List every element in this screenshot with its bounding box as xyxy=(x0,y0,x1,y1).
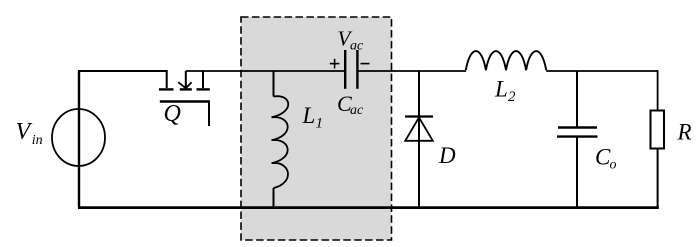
wire bottom xyxy=(78,206,659,209)
voltage source Vin xyxy=(52,109,105,166)
minus sign xyxy=(361,63,370,65)
svg-text:L: L xyxy=(494,77,508,102)
diode D xyxy=(405,71,433,207)
svg-text:ac: ac xyxy=(350,39,364,54)
transistor Q xyxy=(159,71,210,126)
svg-text:in: in xyxy=(32,133,43,148)
inductor L2 xyxy=(466,51,546,70)
svg-text:D: D xyxy=(438,143,456,168)
wire top middle segment xyxy=(186,70,345,72)
svg-text:L: L xyxy=(302,103,316,128)
svg-text:o: o xyxy=(610,158,617,173)
wire top segment Cac to L2 xyxy=(357,70,466,72)
inductor L1 xyxy=(272,71,289,207)
svg-text:1: 1 xyxy=(316,116,324,132)
capacitor Cac xyxy=(345,50,357,89)
dashed switching-cell box xyxy=(241,17,392,240)
wire left vertical xyxy=(78,71,80,207)
wire top left segment xyxy=(78,71,167,88)
wire top segment L2 to corner xyxy=(546,71,657,111)
svg-text:ac: ac xyxy=(350,103,364,118)
resistor R xyxy=(651,111,665,149)
svg-text:V: V xyxy=(16,119,33,145)
svg-text:R: R xyxy=(677,120,692,145)
svg-text:2: 2 xyxy=(508,89,516,105)
plus sign xyxy=(330,59,340,69)
wire right vertical below R xyxy=(657,149,659,209)
svg-text:Q: Q xyxy=(164,101,181,127)
capacitor Co xyxy=(557,71,598,207)
